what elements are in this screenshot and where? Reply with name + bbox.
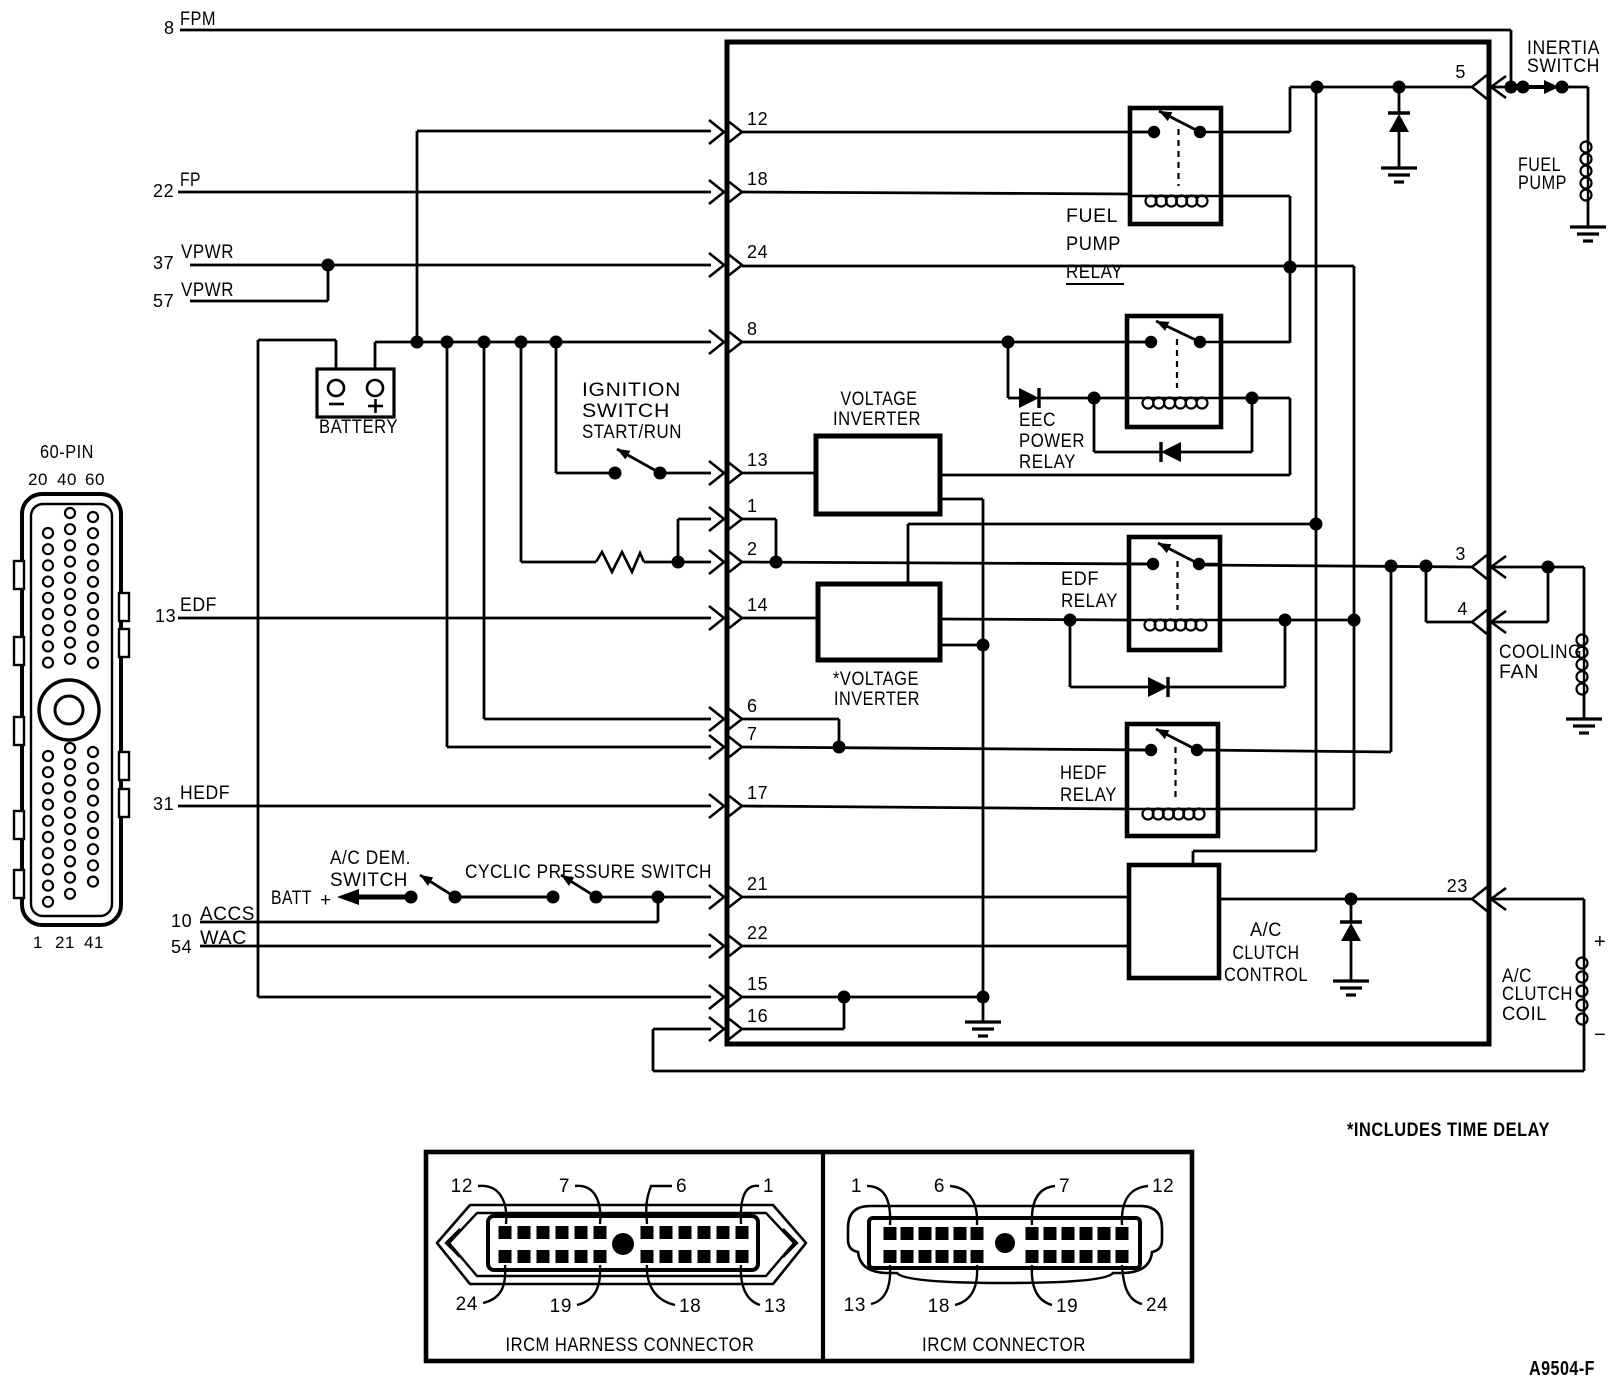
label VPWR pin 37 — [153, 242, 234, 273]
svg-text:60-PIN: 60-PIN — [40, 442, 94, 462]
wire pin 12 to K1 contact — [742, 131, 1154, 134]
wire pin 21 to U3 — [742, 896, 1129, 899]
svg-text:13: 13 — [747, 450, 768, 470]
pin 2 IRCM left — [709, 539, 758, 574]
svg-text:10: 10 — [171, 911, 192, 931]
pin 14 IRCM left — [709, 595, 768, 630]
IRCM pin callout 24 — [1122, 1265, 1168, 1316]
svg-text:22: 22 — [153, 181, 174, 201]
svg-text:FP: FP — [180, 170, 201, 191]
svg-text:PUMP: PUMP — [1066, 234, 1121, 255]
label WAC pin 54 — [171, 928, 247, 957]
cooling fan M2 coil — [1577, 634, 1588, 695]
svg-text:7: 7 — [559, 1176, 570, 1197]
svg-text:6: 6 — [676, 1176, 687, 1197]
wire pin 18 to K1 coil — [742, 192, 1130, 194]
wire cooling fan to ground — [1583, 693, 1586, 718]
svg-text:PUMP: PUMP — [1518, 173, 1567, 194]
diode CR3 flyback K2 — [1094, 392, 1259, 463]
wire U2 lower out — [940, 644, 983, 647]
svg-text:41: 41 — [84, 933, 104, 952]
svg-text:BATTERY: BATTERY — [319, 417, 398, 438]
harness pin callout 1 — [741, 1176, 774, 1224]
label 1 21 41 — [33, 933, 104, 952]
wire pin 16 inside jog — [742, 997, 844, 1029]
pin 5 IRCM right — [1455, 62, 1506, 99]
svg-text:INVERTER: INVERTER — [834, 689, 920, 710]
svg-text:CLUTCH: CLUTCH — [1502, 984, 1573, 1005]
svg-text:FPM: FPM — [180, 9, 216, 30]
svg-text:RELAY: RELAY — [1060, 785, 1117, 806]
svg-text:14: 14 — [747, 595, 768, 615]
svg-text:*VOLTAGE: *VOLTAGE — [833, 669, 919, 690]
svg-text:INVERTER: INVERTER — [833, 409, 921, 430]
svg-text:EEC: EEC — [1019, 410, 1056, 431]
wire pin 22 to U3 — [742, 945, 1129, 948]
diode CR5 to ground — [1340, 899, 1362, 980]
svg-text:A/C: A/C — [1250, 920, 1282, 941]
pin 8 IRCM left — [709, 319, 758, 354]
wire K1 contact to pin 5 net — [1221, 87, 1290, 132]
wire FP to pin 18 — [178, 191, 711, 194]
svg-text:17: 17 — [747, 783, 768, 803]
label A9504-F — [1529, 1358, 1595, 1380]
label *VOLTAGE INVERTER — [833, 669, 920, 710]
wire drop to pin 12 — [417, 131, 711, 342]
svg-text:COOLING: COOLING — [1499, 642, 1582, 663]
wire K4 contact right — [1199, 750, 1391, 752]
wire fuel pump to ground — [1587, 199, 1590, 226]
wire branch to pin 4 — [1426, 566, 1472, 622]
harness pin callout 7 — [559, 1176, 600, 1224]
svg-text:A9504-F: A9504-F — [1529, 1358, 1595, 1380]
svg-text:SWITCH: SWITCH — [330, 870, 408, 891]
svg-text:21: 21 — [747, 874, 768, 894]
wire pin 1 inside jog — [742, 519, 776, 562]
harness pin callout 6 — [646, 1176, 687, 1224]
label FP pin 22 — [153, 170, 201, 201]
svg-text:7: 7 — [1059, 1176, 1070, 1197]
svg-text:21: 21 — [55, 933, 75, 952]
pin 12 IRCM left — [709, 109, 768, 144]
svg-text:13: 13 — [844, 1295, 866, 1316]
svg-text:19: 19 — [1056, 1296, 1078, 1317]
wire pin 23 outside — [1491, 899, 1584, 957]
pin 21 IRCM left — [709, 874, 768, 909]
pin 4 IRCM right — [1457, 599, 1506, 634]
wire to cooling fan — [1583, 567, 1586, 634]
wire U2 out to EDF coil — [940, 614, 1129, 627]
svg-text:START/RUN: START/RUN — [582, 422, 682, 443]
pin 22 IRCM left — [709, 923, 768, 958]
pin 16 IRCM left — [709, 1006, 768, 1041]
wire pin 7 to K4 contact — [742, 741, 1153, 754]
wire branch to HEDF contact — [1390, 566, 1393, 752]
svg-text:FUEL: FUEL — [1066, 206, 1118, 227]
label INERTIA SWITCH — [1527, 38, 1600, 77]
svg-text:8: 8 — [747, 319, 758, 339]
IRCM harness connector art — [437, 1205, 806, 1284]
svg-text:*INCLUDES TIME DELAY: *INCLUDES TIME DELAY — [1347, 1120, 1550, 1141]
wire pin 24 bus vertical — [1348, 266, 1361, 809]
svg-text:+: + — [320, 890, 332, 911]
svg-text:13: 13 — [764, 1296, 786, 1317]
svg-text:7: 7 — [747, 724, 758, 744]
IRCM pin callout 7 — [1032, 1176, 1070, 1225]
diode CR2 series — [1008, 342, 1127, 408]
wire pin 24 net — [742, 265, 1354, 268]
label IRCM CONNECTOR — [922, 1335, 1086, 1356]
A/C clutch coil L1 — [1577, 957, 1588, 1025]
wire BATT arrow — [337, 889, 418, 905]
svg-text:24: 24 — [747, 242, 768, 262]
svg-text:VPWR: VPWR — [181, 280, 234, 301]
label HEDF pin 31 — [153, 783, 230, 814]
wire drop to pin 7 — [447, 342, 711, 747]
svg-text:+: + — [1594, 931, 1606, 953]
relay K3 EDF — [1129, 537, 1220, 650]
svg-text:RELAY: RELAY — [1061, 591, 1118, 612]
svg-text:IRCM CONNECTOR: IRCM CONNECTOR — [922, 1335, 1086, 1356]
wire bus pin5 to A/C control — [1193, 87, 1323, 865]
diode CR1 to ground — [1388, 87, 1410, 167]
wire ACCS — [200, 897, 658, 922]
svg-text:15: 15 — [747, 974, 768, 994]
label HEDF RELAY — [1060, 763, 1117, 806]
label CYCLIC PRESSURE SWITCH — [465, 862, 712, 883]
svg-text:BATT: BATT — [271, 888, 312, 909]
wire U1 out to K2 coil net — [940, 474, 1290, 477]
svg-text:POWER: POWER — [1019, 431, 1085, 452]
label FUEL PUMP RELAY — [1066, 206, 1124, 284]
ground G3 — [1333, 981, 1369, 995]
harness pin callout 24 — [456, 1265, 506, 1315]
IRCM pin callout 1 — [851, 1176, 890, 1225]
svg-text:2: 2 — [747, 539, 758, 559]
wire pin 5 net — [1290, 81, 1472, 94]
svg-text:6: 6 — [934, 1176, 945, 1197]
svg-text:CLUTCH: CLUTCH — [1233, 943, 1300, 964]
relay K1 fuel pump — [1130, 108, 1221, 224]
svg-text:HEDF: HEDF — [1060, 763, 1107, 784]
wire jog to pin 1 — [678, 519, 711, 562]
label EDF RELAY — [1061, 569, 1118, 612]
pin 18 IRCM left — [709, 169, 768, 204]
label IRCM HARNESS CONNECTOR — [506, 1335, 755, 1356]
svg-text:16: 16 — [747, 1006, 768, 1026]
label COOLING FAN — [1499, 642, 1582, 683]
svg-text:−: − — [1594, 1024, 1606, 1046]
svg-text:12: 12 — [451, 1176, 473, 1197]
svg-text:22: 22 — [747, 923, 768, 943]
wire WAC to pin 22 — [200, 945, 711, 948]
switch S4 inertia — [1491, 80, 1569, 94]
wire pin 14 to U2 — [742, 617, 818, 620]
wire K2 coil right to inverter net — [1221, 398, 1290, 475]
svg-text:COIL: COIL — [1502, 1004, 1547, 1025]
pin 23 IRCM right — [1447, 876, 1506, 911]
svg-text:HEDF: HEDF — [180, 783, 230, 804]
harness pin callout 12 — [451, 1176, 507, 1224]
svg-text:VOLTAGE: VOLTAGE — [841, 389, 918, 410]
resistor R1 — [596, 552, 644, 572]
label FUEL PUMP — [1518, 155, 1567, 194]
svg-text:5: 5 — [1455, 62, 1466, 82]
switch S1 ignition — [609, 449, 667, 480]
label EDF pin 13 — [155, 595, 217, 626]
pin 13 IRCM left — [709, 450, 768, 485]
label EEC POWER RELAY — [1019, 410, 1085, 473]
wire clutch coil return to pin 16 — [653, 1023, 1584, 1071]
svg-text:12: 12 — [747, 109, 768, 129]
pin 3 IRCM right — [1455, 544, 1506, 579]
switch S2 A/C demand — [420, 875, 462, 904]
battery B1 — [317, 369, 394, 417]
connector panel frame — [426, 1152, 1192, 1361]
wire K3 coil to pin 24 bus — [1220, 619, 1354, 622]
wire S2 to S3 — [455, 896, 553, 899]
wire pin 17 to K4 coil — [742, 806, 1127, 809]
diode CR4 flyback K3 — [1070, 614, 1292, 698]
harness pin callout 18 — [647, 1265, 701, 1317]
label plus — [1594, 931, 1606, 953]
pin 7 IRCM left — [709, 724, 758, 759]
pin 24 IRCM left — [709, 242, 768, 277]
label A/C CLUTCH CONTROL — [1224, 920, 1308, 986]
wire U1 lower out to ground bus — [940, 499, 990, 997]
pin 1 IRCM left — [709, 496, 758, 531]
label A/C DEM. SWITCH — [330, 848, 411, 891]
svg-text:12: 12 — [1152, 1176, 1174, 1197]
relay K4 HEDF — [1127, 724, 1218, 836]
label FPM — [164, 9, 216, 38]
svg-text:IRCM HARNESS CONNECTOR: IRCM HARNESS CONNECTOR — [506, 1335, 755, 1356]
svg-text:RELAY: RELAY — [1019, 452, 1076, 473]
wire K3 contact to pin 3 — [1199, 560, 1472, 573]
relay K2 EEC power — [1127, 316, 1221, 427]
svg-text:40: 40 — [57, 470, 77, 489]
pin 17 IRCM left — [709, 783, 768, 818]
wire drop to pin 6 — [484, 342, 711, 719]
svg-text:23: 23 — [1447, 876, 1468, 896]
wire pin 15 ground net — [742, 991, 983, 1004]
svg-text:57: 57 — [153, 291, 174, 311]
ground G2 module — [965, 991, 1001, 1037]
svg-text:13: 13 — [155, 606, 176, 626]
svg-text:31: 31 — [153, 794, 174, 814]
IRCM pin callout 6 — [934, 1176, 977, 1225]
wire K4 coil to pin 24 bus — [1218, 808, 1354, 811]
pin 6 IRCM left — [709, 696, 758, 731]
label BATTERY — [319, 417, 398, 438]
wire S3 to pin 21 — [596, 891, 711, 904]
wire VPWR57 joins VPWR37 — [190, 265, 328, 301]
harness pin callout 19 — [550, 1265, 601, 1317]
svg-text:54: 54 — [171, 937, 192, 957]
svg-text:6: 6 — [747, 696, 758, 716]
harness pin callout 13 — [741, 1265, 786, 1317]
IRCM pin callout 19 — [1032, 1265, 1079, 1317]
A/C clutch control module U3 — [1129, 865, 1219, 978]
svg-text:CYCLIC PRESSURE SWITCH: CYCLIC PRESSURE SWITCH — [465, 862, 712, 883]
voltage inverter U2 — [818, 584, 940, 660]
fuel pump M1 coil — [1581, 141, 1592, 201]
wire pin 6 inside jog — [742, 719, 839, 747]
label VPWR pin 57 — [153, 280, 234, 311]
svg-text:IGNITION: IGNITION — [582, 380, 681, 401]
wire battery plus bus to pin 8 — [375, 336, 711, 370]
wire resistor to pin 2 — [644, 556, 711, 569]
wire pin 3 outside — [1491, 561, 1584, 574]
svg-text:60: 60 — [85, 470, 105, 489]
svg-text:SWITCH: SWITCH — [1527, 56, 1600, 77]
svg-text:1: 1 — [763, 1176, 774, 1197]
wire ignition switch to pin 13 — [660, 472, 711, 475]
wire VPWR to pin 24 — [190, 259, 711, 272]
IRCM module boundary box — [727, 42, 1489, 1044]
wire U2 top feed — [908, 524, 1316, 584]
svg-text:A/C DEM.: A/C DEM. — [330, 848, 411, 869]
svg-text:8: 8 — [164, 18, 175, 38]
svg-text:24: 24 — [456, 1294, 478, 1315]
label ACCS pin 10 — [171, 904, 255, 931]
svg-text:18: 18 — [928, 1296, 950, 1317]
wire pin 2 to K3 contact — [742, 556, 1153, 569]
svg-text:18: 18 — [679, 1296, 701, 1317]
label A/C CLUTCH COIL — [1502, 966, 1573, 1025]
label BATT + — [271, 888, 332, 911]
wire pin 8 to K2 contact — [742, 336, 1154, 349]
IRCM pin callout 12 — [1122, 1176, 1174, 1225]
label INCLUDES TIME DELAY — [1347, 1120, 1550, 1141]
voltage inverter U1 — [816, 436, 940, 514]
wire drop to ignition switch — [556, 342, 615, 473]
wire drop to resistor — [521, 342, 596, 562]
svg-text:VPWR: VPWR — [181, 242, 234, 263]
label minus — [1594, 1024, 1606, 1046]
svg-text:3: 3 — [1455, 544, 1466, 564]
svg-text:1: 1 — [747, 496, 758, 516]
svg-text:FAN: FAN — [1499, 662, 1539, 683]
IRCM connector art — [848, 1206, 1162, 1283]
wire battery minus to pin 15 — [258, 340, 711, 997]
ground G4 — [1570, 227, 1606, 241]
pin 15 IRCM left — [709, 974, 768, 1009]
svg-text:EDF: EDF — [1061, 569, 1099, 590]
svg-text:1: 1 — [33, 933, 43, 952]
wire HEDF to pin 17 — [178, 805, 711, 808]
IRCM pin callout 13 — [844, 1265, 891, 1316]
svg-text:1: 1 — [851, 1176, 862, 1197]
svg-text:SWITCH: SWITCH — [582, 401, 670, 422]
label 60-PIN — [40, 442, 94, 462]
svg-text:20: 20 — [28, 470, 48, 489]
wire EDF to pin 14 — [178, 617, 711, 620]
wire K2 contact right — [1221, 341, 1290, 344]
wire U3 out to pin 23 — [1219, 893, 1472, 906]
wire pin 13 to U1 — [742, 472, 816, 475]
svg-text:4: 4 — [1457, 599, 1468, 619]
ground G1 — [1381, 168, 1417, 182]
60-pin EEC connector art — [14, 494, 129, 925]
wire FPM net (EEC pin 8 to inertia switch) — [180, 30, 1511, 87]
svg-text:CONTROL: CONTROL — [1224, 965, 1308, 986]
label VOLTAGE INVERTER — [833, 389, 921, 430]
svg-text:24: 24 — [1146, 1295, 1168, 1316]
label 20 40 60 — [28, 470, 105, 489]
label IGNITION SWITCH START/RUN — [582, 380, 682, 443]
wire pin 4 outside — [1491, 567, 1548, 622]
svg-text:37: 37 — [153, 253, 174, 273]
svg-text:18: 18 — [747, 169, 768, 189]
wire inertia to fuel pump — [1562, 87, 1588, 141]
wire K1 coil to pin 24 net — [1221, 196, 1297, 343]
IRCM pin callout 18 — [928, 1265, 978, 1317]
svg-text:EDF: EDF — [180, 595, 217, 616]
ground G5 — [1566, 719, 1602, 733]
switch S3 cyclic pressure — [547, 875, 603, 904]
svg-text:19: 19 — [550, 1296, 572, 1317]
